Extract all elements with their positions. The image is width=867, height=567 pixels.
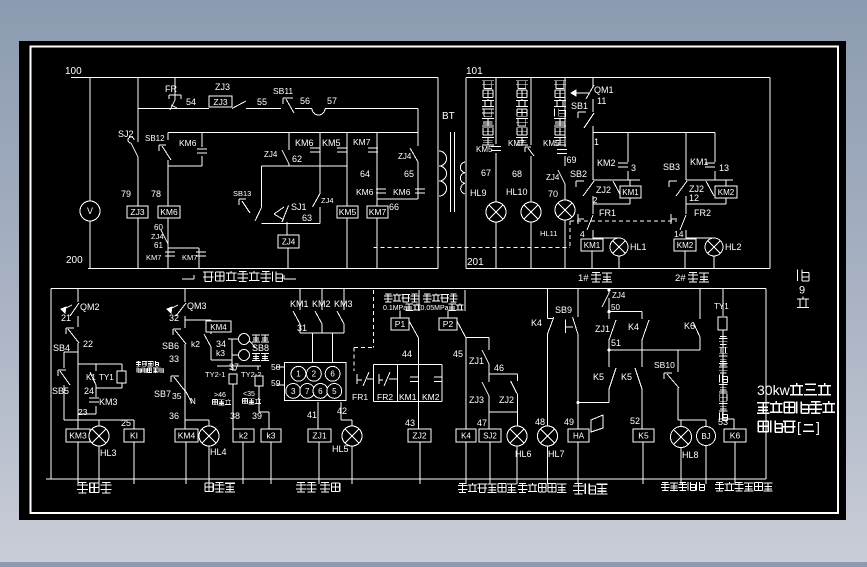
contact k2	[191, 339, 211, 356]
svg-text:KM4: KM4	[178, 431, 196, 441]
svg-text:HL9: HL9	[470, 188, 487, 198]
node 64	[360, 169, 370, 179]
note lt35	[243, 391, 262, 404]
relay contact ZJ4 HL11 branch	[546, 170, 565, 200]
svg-text:SB7: SB7	[154, 389, 171, 399]
node 201 bus label	[467, 257, 484, 268]
wire alarm rail	[577, 289, 579, 430]
svg-text:SB2: SB2	[570, 169, 587, 179]
node 2	[593, 196, 598, 205]
contact KM5 lamp HL11 branch	[543, 78, 567, 167]
contact N	[185, 390, 196, 406]
svg-text:59: 59	[271, 378, 281, 388]
contactor coil KM7	[367, 206, 388, 218]
title line 1	[757, 382, 831, 398]
node 23	[78, 407, 88, 417]
svg-text:1: 1	[296, 370, 301, 379]
contactor coil KM2 output pump2	[674, 239, 696, 251]
wire bus 200	[88, 268, 438, 270]
wire pump2 lamp branch	[686, 238, 714, 269]
svg-text:KM2: KM2	[422, 392, 440, 402]
node 42	[337, 406, 347, 416]
wire sub-bus 108	[138, 108, 418, 110]
svg-text:66: 66	[389, 202, 399, 212]
pushbutton SB10	[654, 350, 679, 420]
caption oil pressure low	[518, 483, 567, 492]
pressure cell P2 text	[421, 294, 464, 313]
contact K5 right	[621, 350, 642, 429]
svg-text:6: 6	[318, 387, 323, 396]
svg-text:k2: k2	[191, 339, 200, 349]
wire pump2 seal join	[686, 179, 733, 181]
caption oil heating	[77, 482, 112, 493]
node 56	[300, 96, 310, 106]
title line 3	[758, 419, 820, 435]
svg-text:0.05MPa: 0.05MPa	[421, 305, 449, 312]
lamp HL1	[610, 238, 647, 256]
node 14	[674, 229, 684, 239]
wire right loop	[377, 109, 418, 200]
svg-text:50: 50	[611, 303, 620, 312]
lamp HL10	[506, 187, 541, 222]
breaker QM3	[167, 289, 207, 317]
svg-text:44: 44	[402, 349, 412, 359]
svg-text:[: [	[797, 419, 801, 435]
indicator column text main motor run	[516, 81, 528, 145]
horn symbol	[591, 415, 603, 432]
node 46	[494, 363, 504, 373]
relay contact ZJ4 60-61	[151, 223, 168, 250]
svg-text:ZJ2: ZJ2	[412, 431, 426, 441]
svg-text:KM1: KM1	[290, 299, 309, 309]
svg-text:KM5: KM5	[476, 145, 493, 154]
relay contact ZJ4 alarm	[602, 288, 626, 311]
svg-text:KM4: KM4	[210, 323, 227, 332]
svg-text:70: 70	[548, 189, 558, 199]
pushbutton SB11	[273, 86, 294, 113]
node 21	[61, 313, 71, 323]
wire alarm split top	[609, 311, 642, 313]
wire oil heat output row	[78, 419, 134, 421]
wire pump1 lamp branch	[593, 238, 619, 269]
lamp HL11	[540, 200, 575, 269]
note gt46	[213, 392, 232, 405]
thermal contact FR	[165, 78, 181, 111]
contact K4 alarm	[628, 312, 649, 350]
svg-text:KM3: KM3	[99, 397, 118, 407]
wire pump2 main rail	[685, 133, 686, 269]
svg-text:SB12: SB12	[145, 134, 165, 143]
wire KM5 coil branch	[346, 133, 348, 269]
wire pump1 main rail	[592, 133, 593, 269]
node 38	[230, 411, 240, 421]
wire pressure normal main	[466, 338, 489, 430]
wire lamp alarm row	[678, 419, 706, 421]
svg-text:21: 21	[61, 313, 71, 323]
transformer BT primary winding	[439, 151, 447, 196]
node 59	[271, 378, 285, 388]
indicator column text main motor start	[554, 81, 566, 145]
node 78	[151, 189, 161, 199]
wire SJ1 bottom rail	[261, 222, 320, 224]
relay coil K6 box	[723, 419, 746, 484]
contactor contact KM6 top row	[295, 138, 314, 148]
timer coil SJ2 box	[479, 412, 501, 484]
svg-text:SJ2: SJ2	[483, 431, 497, 440]
wire lower block bottom bus	[46, 478, 766, 480]
relay coil k3 box	[261, 429, 281, 484]
caption electric cooling	[205, 482, 235, 492]
svg-text:KM6: KM6	[356, 187, 374, 197]
svg-text:SB10: SB10	[654, 360, 675, 370]
relay contact ZJ4 right	[398, 152, 412, 161]
svg-text:ZJ1: ZJ1	[312, 431, 326, 441]
svg-text:1#: 1#	[578, 273, 589, 284]
contact KM2 seal pump1	[597, 133, 636, 181]
alarm bell HA	[568, 429, 589, 484]
svg-text:KM6: KM6	[179, 138, 197, 148]
wire node62 rail	[261, 166, 347, 208]
svg-text:K4: K4	[461, 431, 471, 440]
relay contact ZJ3 parallel	[469, 374, 489, 412]
svg-text:56: 56	[300, 96, 310, 106]
svg-text:ZJ4: ZJ4	[612, 291, 626, 300]
wire alarm feed	[578, 401, 609, 403]
timer contact SJ2	[118, 78, 138, 158]
svg-text:2: 2	[312, 370, 317, 379]
wire alarm mid rail	[609, 349, 700, 351]
node 55	[257, 97, 267, 107]
svg-text:23: 23	[78, 407, 88, 417]
svg-text:K6: K6	[730, 431, 741, 441]
wire KM7 coil branch	[376, 133, 378, 269]
lamp HL8	[671, 420, 699, 484]
svg-text:BJ: BJ	[701, 432, 710, 441]
caption oil return detection	[296, 482, 340, 492]
svg-text:TY2-1: TY2-1	[205, 370, 225, 379]
relay contact ZJ1	[469, 338, 489, 375]
svg-text:52: 52	[630, 416, 640, 426]
contactor coil KM2 output pump1	[581, 239, 603, 251]
contactor coil KM5	[337, 206, 358, 218]
svg-text:43: 43	[405, 418, 415, 428]
relay contact ZJ1 alarm	[595, 312, 616, 350]
relay contact ZJ3 (boxed label)	[209, 82, 246, 109]
node 24	[84, 386, 94, 396]
contact KM1 seal pump2	[690, 133, 729, 181]
relay coil K4 box	[456, 429, 476, 484]
svg-text:67: 67	[481, 168, 491, 178]
svg-text:ZJ3: ZJ3	[469, 395, 484, 405]
svg-text:68: 68	[512, 169, 522, 179]
caption pump2	[675, 272, 709, 284]
node 63	[302, 213, 312, 223]
svg-text:HL1: HL1	[630, 242, 647, 252]
note saturated steam 16deg	[136, 361, 164, 373]
svg-text:KM6: KM6	[393, 187, 411, 197]
wire bus 201	[466, 268, 770, 270]
terminal block	[285, 363, 347, 401]
node 31	[297, 323, 344, 363]
wire interlock ladder rails	[374, 364, 443, 401]
svg-text:22: 22	[83, 339, 93, 349]
contact KM1 return	[290, 289, 309, 334]
svg-text:ZJ4: ZJ4	[151, 232, 164, 241]
svg-text:HL3: HL3	[100, 448, 117, 458]
wire ZJ3 branch	[137, 157, 139, 269]
relay contact ZJ4 near SJ1	[313, 133, 334, 224]
node 25	[121, 418, 131, 428]
node 48	[535, 417, 545, 427]
contact KM7 lamp HL10 branch	[508, 78, 534, 269]
selector SJ1	[274, 202, 307, 222]
svg-text:FR: FR	[165, 84, 177, 94]
relay coil k2 box	[233, 420, 254, 484]
svg-text:3: 3	[291, 387, 296, 396]
transformer BT label	[442, 111, 455, 122]
wire right rail upper block	[769, 78, 771, 269]
svg-text:ZJ1: ZJ1	[469, 356, 484, 366]
svg-text:KM7: KM7	[369, 207, 387, 217]
contactor contact KM7 top row	[353, 137, 371, 147]
svg-text:]: ]	[816, 419, 820, 435]
contact KM2 interlock	[422, 377, 442, 402]
svg-text:FR1: FR1	[352, 392, 368, 402]
svg-text:SJ1: SJ1	[291, 202, 307, 212]
lamp HL2	[705, 238, 742, 256]
pressure switch P2	[439, 311, 466, 339]
alarm lamp BJ	[697, 420, 716, 484]
svg-text:46: 46	[494, 363, 504, 373]
contactor coil KM6	[158, 206, 180, 218]
svg-text:ZJ3: ZJ3	[213, 97, 227, 107]
svg-text:KM7: KM7	[182, 253, 197, 262]
contact KM2 return	[312, 289, 331, 334]
svg-text:K5: K5	[638, 431, 649, 441]
node 36	[169, 411, 179, 421]
svg-text:48: 48	[535, 417, 545, 427]
thermal contact FR1	[578, 208, 616, 230]
svg-text:31: 31	[297, 323, 307, 333]
node 200 bus label	[66, 255, 83, 266]
svg-text:HL2: HL2	[725, 242, 742, 252]
pressure cell divider	[419, 290, 465, 311]
svg-text:FR1: FR1	[599, 208, 616, 218]
dashed trip linkage vertical	[569, 221, 571, 248]
contact FR2 interlock	[377, 372, 398, 402]
wire pump feed bus	[593, 132, 715, 134]
svg-text:61: 61	[154, 241, 163, 250]
node 50	[607, 303, 620, 313]
node 32	[169, 313, 179, 323]
svg-text:KM6: KM6	[295, 138, 314, 148]
svg-text:13: 13	[719, 163, 729, 173]
node 70	[548, 189, 558, 199]
svg-text:HL10: HL10	[506, 187, 528, 197]
node 58	[271, 362, 285, 372]
svg-text:12: 12	[689, 193, 699, 203]
caption oil temp too high	[715, 482, 773, 491]
contact KM3 seal	[78, 388, 118, 414]
node 69	[567, 155, 577, 165]
contact pair KM7	[146, 248, 206, 269]
relay contact ZJ2 parallel	[499, 374, 518, 412]
svg-text:49: 49	[564, 417, 574, 427]
svg-text:ZJ4: ZJ4	[398, 152, 412, 161]
svg-text:ZJ4: ZJ4	[546, 173, 560, 182]
svg-text:<35: <35	[243, 391, 255, 398]
svg-text:9: 9	[799, 285, 805, 297]
node 35	[172, 391, 182, 401]
svg-text:KM5: KM5	[339, 207, 357, 217]
svg-text:38: 38	[230, 411, 240, 421]
svg-text:ZJ4: ZJ4	[282, 237, 296, 246]
svg-text:K4: K4	[531, 318, 542, 328]
svg-text:KM7: KM7	[146, 253, 161, 262]
wire lower block left rail	[50, 289, 52, 480]
svg-text:KI: KI	[130, 431, 138, 441]
node 1	[594, 137, 599, 147]
contact KM4 seal boxed	[185, 320, 231, 352]
svg-text:62: 62	[292, 154, 302, 164]
transformer BT secondary winding	[460, 162, 465, 194]
node 67	[481, 168, 491, 178]
node 22	[83, 339, 93, 349]
svg-text:SB13: SB13	[233, 189, 251, 198]
svg-text:BT: BT	[442, 111, 455, 122]
svg-text:K5: K5	[621, 372, 632, 382]
caption main motor control circuit	[182, 271, 296, 282]
contactor coil KM4 box	[175, 420, 198, 484]
dashed trip linkage horizontal	[374, 247, 571, 249]
node 33	[169, 354, 179, 364]
relay contact ZJ2 pump2	[689, 181, 714, 203]
svg-text:69: 69	[567, 155, 577, 165]
selector SB8 manual	[211, 334, 269, 361]
pushbutton SB3	[663, 162, 687, 196]
node 37	[217, 360, 261, 372]
svg-text:101: 101	[466, 66, 483, 77]
wire cooling output row	[185, 419, 209, 421]
lamp HL4	[199, 420, 227, 484]
node 54	[186, 97, 196, 107]
svg-text:78: 78	[151, 189, 161, 199]
svg-text:KM3: KM3	[69, 431, 87, 441]
svg-text:41: 41	[307, 410, 317, 420]
svg-text:QM1: QM1	[594, 85, 614, 95]
svg-text:36: 36	[169, 411, 179, 421]
svg-text:SB1: SB1	[571, 101, 588, 111]
lamp HL7	[538, 426, 565, 484]
wire sub-bus 133	[168, 132, 418, 134]
voltmeter V	[80, 201, 100, 221]
svg-text:KM1: KM1	[399, 392, 417, 402]
node 34	[216, 339, 226, 349]
breaker QM2	[61, 289, 100, 317]
svg-text:63: 63	[302, 213, 312, 223]
svg-text:k3: k3	[267, 431, 276, 441]
wire bus 101	[466, 77, 770, 79]
svg-text:KM1: KM1	[622, 188, 639, 197]
relay coil ZJ4	[278, 222, 299, 269]
svg-text:ZJ2: ZJ2	[596, 185, 611, 195]
svg-text:>46: >46	[214, 392, 226, 399]
wire corner to sub-bus 133	[417, 109, 419, 133]
svg-text:2: 2	[593, 196, 598, 205]
svg-text:42: 42	[337, 406, 347, 416]
contact KM1 interlock	[399, 377, 419, 402]
svg-text:KM1: KM1	[584, 241, 601, 250]
svg-text:3: 3	[631, 163, 636, 173]
pushbutton SB2	[570, 169, 594, 196]
relay coil ZJ3	[127, 206, 148, 218]
contact KM6 seal	[168, 133, 207, 167]
svg-text:P2: P2	[443, 319, 454, 329]
pressure cell P1 text	[383, 294, 421, 313]
pushbutton SB4	[53, 316, 79, 429]
pushbutton SB5 parallel	[52, 352, 78, 420]
svg-text:TY1: TY1	[99, 373, 114, 382]
svg-text:201: 201	[467, 257, 484, 268]
svg-text:ZJ2: ZJ2	[499, 395, 514, 405]
svg-text:HA: HA	[573, 431, 585, 440]
svg-text:HL8: HL8	[682, 450, 699, 460]
svg-text:SB9: SB9	[555, 305, 572, 315]
svg-text:ZJ3: ZJ3	[215, 82, 230, 92]
node 66	[389, 202, 399, 212]
svg-text:24: 24	[84, 386, 94, 396]
breaker QM1	[571, 78, 614, 100]
node 45	[453, 349, 463, 359]
dashed trip linkage to FR2	[570, 220, 677, 222]
svg-text:47: 47	[477, 418, 487, 428]
svg-text:33: 33	[169, 354, 179, 364]
node 4	[580, 229, 585, 239]
svg-text:6: 6	[330, 370, 335, 379]
lamp HL6	[507, 412, 532, 484]
svg-text:P1: P1	[395, 319, 406, 329]
svg-text:HL4: HL4	[210, 447, 227, 457]
svg-text:SB6: SB6	[162, 341, 179, 351]
svg-text:KM5: KM5	[543, 139, 560, 148]
svg-text:SB5: SB5	[52, 386, 69, 396]
svg-text:39: 39	[252, 411, 262, 421]
pushbutton SB1	[571, 99, 594, 133]
svg-text:KM6: KM6	[160, 207, 178, 217]
title line 2	[757, 401, 835, 413]
relay coil K5 box	[633, 429, 654, 484]
contactor coil KM3 box	[66, 420, 90, 484]
pushbutton SB7	[154, 376, 185, 399]
svg-text:K5: K5	[593, 372, 604, 382]
svg-text:QM2: QM2	[80, 302, 100, 312]
svg-text:KM2: KM2	[597, 158, 616, 168]
wire left block right rail	[437, 78, 439, 269]
svg-text:SB8: SB8	[252, 343, 269, 353]
svg-text:SB3: SB3	[663, 162, 680, 172]
svg-text:HL6: HL6	[515, 449, 532, 459]
contact KM6 with cap left	[356, 187, 386, 197]
svg-text:KM1: KM1	[690, 157, 709, 167]
contact KM3 return	[334, 289, 353, 334]
node 52	[630, 416, 640, 426]
svg-text:57: 57	[327, 96, 337, 106]
wire interlock main rail	[418, 338, 420, 429]
svg-text:25: 25	[121, 418, 131, 428]
svg-text:ZJ4: ZJ4	[264, 150, 278, 159]
caption oil pressure normal	[458, 483, 516, 492]
page number vertical	[797, 269, 809, 307]
